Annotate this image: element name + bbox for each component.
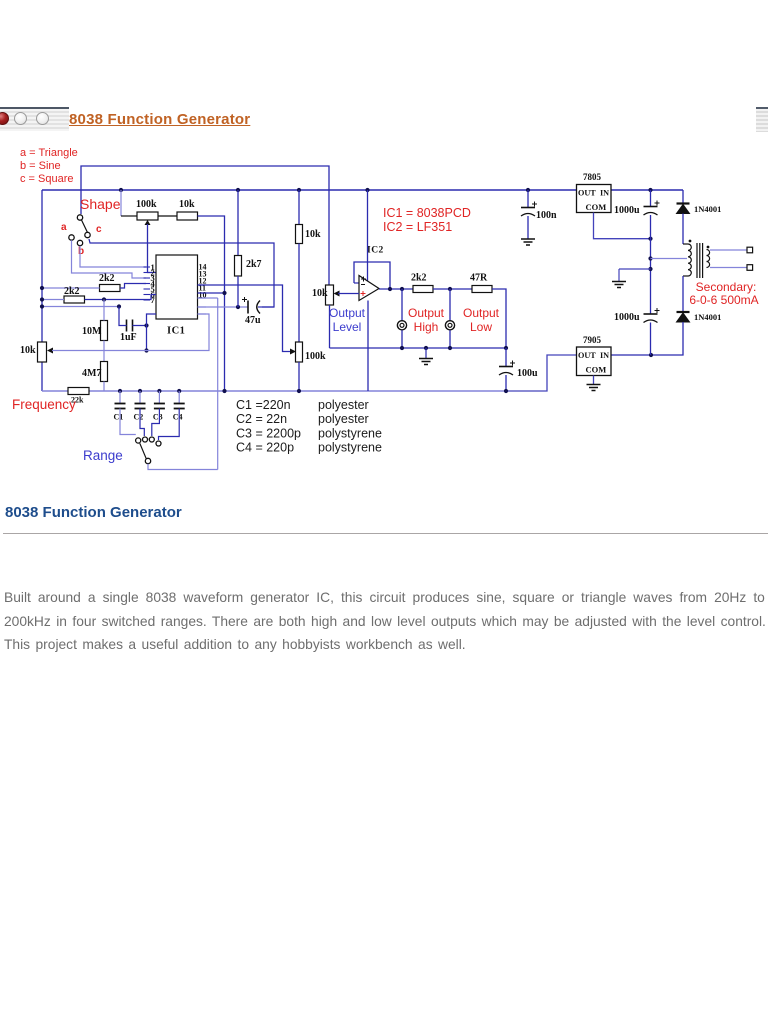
diode D2 1N4001 xyxy=(677,312,690,322)
node common x402 xyxy=(400,346,404,350)
switch SW1 contact b xyxy=(77,240,82,245)
svg-text:Low: Low xyxy=(470,320,492,334)
regulator 7805 body xyxy=(577,185,612,213)
svg-text:100k: 100k xyxy=(305,351,326,362)
wire level pot to output common xyxy=(329,305,331,348)
connector output high xyxy=(397,321,406,330)
wire 2k2 upper to pin4 xyxy=(120,284,146,289)
node feedback junction xyxy=(388,287,392,291)
svg-text:Output: Output xyxy=(329,306,366,320)
node common ground tap xyxy=(424,346,428,350)
svg-text:a: a xyxy=(61,222,67,233)
wire output high to common xyxy=(401,330,403,348)
wire pin12 to 100k pot wiper xyxy=(198,285,294,352)
node output high branch xyxy=(400,287,404,291)
wire left rail lower xyxy=(41,362,43,391)
node left rail y306 xyxy=(40,304,44,308)
svg-text:C1: C1 xyxy=(114,413,124,422)
svg-text:polyester: polyester xyxy=(318,412,369,426)
svg-text:C2 = 22n: C2 = 22n xyxy=(236,412,287,426)
potentiometer 10k level xyxy=(326,285,334,305)
resistor 10k top xyxy=(177,212,198,220)
wire junction down to wiper line xyxy=(146,326,148,351)
wire pin10 vertical xyxy=(217,298,219,470)
op-amp IC1 8038 body xyxy=(156,255,198,319)
diode D1 1N4001 xyxy=(677,204,690,214)
svg-text:polystyrene: polystyrene xyxy=(318,441,382,455)
svg-text:IC2 = LF351: IC2 = LF351 xyxy=(383,220,452,234)
wire C4 to range contact xyxy=(159,409,180,441)
window control button 2 xyxy=(14,112,27,125)
svg-text:Output: Output xyxy=(463,306,500,320)
wire rail to op-amp + xyxy=(367,190,369,281)
svg-text:10k: 10k xyxy=(305,229,321,240)
svg-text:C1 =220n: C1 =220n xyxy=(236,398,291,412)
svg-text:2k2: 2k2 xyxy=(99,273,115,284)
wire rail to 2k2 lower xyxy=(42,299,64,301)
wire 1uF left lead xyxy=(119,307,127,326)
node 0V x650 y258 xyxy=(648,256,652,260)
svg-text:2k7: 2k7 xyxy=(246,259,262,270)
svg-text:COM: COM xyxy=(586,365,607,375)
transformer T1 xyxy=(683,240,710,278)
svg-text:polyester: polyester xyxy=(318,398,369,412)
svg-text:High: High xyxy=(414,320,439,334)
svg-text:1N4001: 1N4001 xyxy=(694,312,721,322)
wire C1 to range contact xyxy=(120,409,136,435)
svg-text:C4 = 220p: C4 = 220p xyxy=(236,441,294,455)
wire rail to 10k vert xyxy=(298,190,300,225)
capacitor C4 xyxy=(177,389,181,393)
svg-text:10M: 10M xyxy=(82,326,102,337)
wire 10M to 4M7 xyxy=(103,341,105,362)
wire SW2 pole to pin10 xyxy=(148,464,218,470)
capacitor 100u xyxy=(499,361,515,376)
svg-text:1uF: 1uF xyxy=(120,332,137,343)
capacitor C2 xyxy=(138,389,142,393)
node 0V x650 y238 xyxy=(648,237,652,241)
svg-text:C4: C4 xyxy=(173,413,183,422)
svg-text:47u: 47u xyxy=(245,315,261,326)
svg-text:Frequency: Frequency xyxy=(12,397,76,412)
wire rail to diode D1 xyxy=(682,190,684,204)
wire C2 to range contact xyxy=(140,409,144,437)
svg-text:b = Sine: b = Sine xyxy=(20,160,61,172)
wire 2k2 line to 10M xyxy=(103,300,105,321)
node top rail x650 xyxy=(648,188,652,192)
wire secondary terminal lower xyxy=(710,267,747,269)
ground 100n xyxy=(521,239,535,245)
wire pin11 node to bottom rail xyxy=(224,293,226,391)
wire 0V column xyxy=(650,215,652,314)
node 0V x650 y269 xyxy=(648,267,652,271)
node 1000u lower junction xyxy=(649,353,653,357)
wire 100u to rail xyxy=(505,375,507,391)
wire top +V rail xyxy=(42,189,683,191)
wire bottom 0V rail xyxy=(42,390,506,392)
wire ground branch down xyxy=(618,269,620,281)
svg-text:10k: 10k xyxy=(312,288,328,299)
switch SW1 contact a xyxy=(69,235,74,240)
svg-text:COM: COM xyxy=(586,202,607,212)
svg-text:10k: 10k xyxy=(179,199,195,210)
window control button 3 xyxy=(36,112,49,125)
wire 2k7 to pin9 line xyxy=(237,276,239,307)
wire junction to pin7 area xyxy=(147,314,157,326)
wire contact a to pin3 xyxy=(72,240,147,278)
wire rail to 1000u upper xyxy=(650,190,652,206)
connector output low xyxy=(445,321,454,330)
wire feedback to inverting input xyxy=(354,282,359,284)
wire 47R to common xyxy=(492,289,506,348)
wire C3 to range contact xyxy=(152,409,160,437)
wire transformer to diode D2 xyxy=(682,276,684,313)
svg-text:c: c xyxy=(96,224,102,235)
10k level pot wiper arrow xyxy=(334,291,340,297)
wire 47u right lead xyxy=(258,306,274,308)
switch SW2 lever xyxy=(140,443,147,459)
node common x450 xyxy=(448,346,452,350)
node 1uF branch xyxy=(117,304,121,308)
wire rail to 100n xyxy=(527,190,529,207)
capacitor 47u xyxy=(242,297,260,314)
node top rail x299 xyxy=(297,188,301,192)
wire 2k2 to 47R xyxy=(433,288,472,290)
wire secondary terminal upper xyxy=(710,249,747,251)
switch SW2 pole xyxy=(145,458,150,463)
svg-text:IN: IN xyxy=(600,351,609,360)
wire output common rail xyxy=(330,347,507,349)
wire D2 to 7905 IN xyxy=(612,322,684,355)
svg-text:b: b xyxy=(78,246,84,257)
svg-text:1N4001: 1N4001 xyxy=(694,204,721,214)
svg-text:Secondary:: Secondary: xyxy=(696,280,757,294)
wire left rail upper xyxy=(41,190,43,342)
100k pot wiper arrow xyxy=(290,349,296,355)
svg-text:Output: Output xyxy=(408,306,445,320)
capacitor 1000u lower xyxy=(644,308,660,323)
wire 4M7 to rail xyxy=(103,382,105,392)
wire pin11 stub xyxy=(198,292,225,294)
wire pin9 to 47u xyxy=(198,306,249,308)
switch SW2 contact 2 xyxy=(143,437,148,442)
svg-text:2k2: 2k2 xyxy=(411,273,427,284)
svg-text:IN: IN xyxy=(600,189,609,198)
node top rail x238 xyxy=(236,188,240,192)
potentiometer 100k output xyxy=(296,342,303,362)
node output low branch xyxy=(448,287,452,291)
wire centre tap xyxy=(651,258,688,260)
svg-text:Range: Range xyxy=(83,448,123,463)
switch SW2 contact 1 xyxy=(136,438,141,443)
node top rail x367 xyxy=(365,188,369,192)
svg-text:2k2: 2k2 xyxy=(64,286,80,297)
op-amp IC2 triangle xyxy=(359,276,379,301)
svg-text:100u: 100u xyxy=(517,368,538,379)
svg-text:IC1 = 8038PCD: IC1 = 8038PCD xyxy=(383,206,471,220)
resistor 10k vertical xyxy=(296,225,303,244)
wire contact c to 47u xyxy=(89,239,274,307)
capacitor C3 xyxy=(157,389,161,393)
capacitor 1000u upper xyxy=(644,201,660,216)
svg-text:C3: C3 xyxy=(153,413,163,422)
terminal upper xyxy=(747,247,753,253)
potentiometer 10k frequency xyxy=(38,342,47,362)
ground 7905 xyxy=(587,385,601,391)
ground output common xyxy=(419,359,433,365)
potentiometer 100k top xyxy=(137,212,158,220)
svg-text:10k: 10k xyxy=(20,345,36,356)
svg-text:IC1: IC1 xyxy=(167,326,185,337)
node wiper line junction xyxy=(144,348,148,352)
node top rail junction x121 xyxy=(119,188,123,192)
wire D1 to transformer xyxy=(682,214,684,245)
wire 10k to pin11 node xyxy=(198,216,225,293)
wire 0V to ground branch xyxy=(619,268,651,270)
terminal lower xyxy=(747,265,753,271)
node 2k7 bottom junction xyxy=(236,305,240,309)
svg-text:6-0-6 500mA: 6-0-6 500mA xyxy=(689,293,758,307)
resistor 2k2 output xyxy=(413,286,433,293)
ground 0V xyxy=(612,282,626,288)
node common x506 xyxy=(504,346,508,350)
svg-text:4M7: 4M7 xyxy=(82,368,101,379)
svg-text:C2: C2 xyxy=(134,413,144,422)
svg-text:100k: 100k xyxy=(136,199,157,210)
wire level wiper to op-amp +in xyxy=(338,293,359,295)
page title link xyxy=(69,111,250,128)
resistor 2k2 upper xyxy=(100,285,121,292)
svg-text:OUT: OUT xyxy=(578,189,596,198)
svg-text:Level: Level xyxy=(333,320,362,334)
svg-text:OUT: OUT xyxy=(578,351,596,360)
regulator 7905 body xyxy=(577,347,612,376)
wire 7905 COM to ground xyxy=(593,376,595,385)
capacitor C1 xyxy=(118,389,122,393)
svg-text:7905: 7905 xyxy=(583,335,602,345)
wire rail to 100k pot xyxy=(120,190,122,216)
browser title bar fragment xyxy=(0,107,69,131)
wire 100k left lead xyxy=(121,215,137,217)
resistor 2k7 xyxy=(235,256,242,277)
wire rail to 2k7 xyxy=(237,190,239,256)
svg-text:a = Triangle: a = Triangle xyxy=(20,147,78,159)
node 1uF right junction xyxy=(144,323,148,327)
wire 1uF right lead xyxy=(133,325,147,327)
node bottom rail x224 xyxy=(222,389,226,393)
switch SW2 contact 4 xyxy=(156,441,161,446)
resistor 22k xyxy=(68,388,89,395)
wire 100n to ground xyxy=(527,216,529,239)
node top rail x528 xyxy=(526,188,530,192)
switch SW1 pole contact xyxy=(77,215,82,220)
wire bottom rail to 7905 OUT xyxy=(506,355,576,391)
wire 1000u lower to IN line xyxy=(650,323,652,356)
wire common to 100u xyxy=(505,348,507,366)
wire 2k2 lower to pin5 xyxy=(85,295,157,300)
section heading xyxy=(5,504,182,521)
svg-text:7805: 7805 xyxy=(583,172,602,182)
wire wiper line to pin8 xyxy=(147,314,210,351)
wire 100k wiper to pin2 xyxy=(148,224,157,273)
capacitor 1uF xyxy=(127,320,133,332)
op-amp input marks xyxy=(361,277,366,282)
body paragraph xyxy=(4,586,768,657)
svg-text:C3 = 2200p: C3 = 2200p xyxy=(236,426,301,440)
horizontal rule xyxy=(3,533,768,534)
IC1 left pins 1-7 xyxy=(144,266,151,268)
wire op-amp output xyxy=(379,288,413,290)
wire 100k pot to rail xyxy=(298,362,300,391)
wire 10k to 100k pot xyxy=(298,244,300,343)
wire pin10 stub xyxy=(198,297,218,299)
svg-text:1000u: 1000u xyxy=(614,205,640,216)
wire between 100k and 10k xyxy=(158,215,177,217)
switch SW1 contact c xyxy=(85,232,90,237)
wire op-amp V- to rail xyxy=(367,301,369,392)
svg-text:100n: 100n xyxy=(536,210,557,221)
100k pot wiper arrow xyxy=(145,220,151,225)
resistor 47R xyxy=(472,286,492,293)
svg-text:Shape: Shape xyxy=(80,196,121,212)
wire to output low connector xyxy=(449,289,451,321)
svg-text:47R: 47R xyxy=(470,273,488,284)
wire 10k wiper to pins 7-8 xyxy=(52,350,147,352)
resistor 4M7 xyxy=(101,362,108,382)
svg-text:IC2: IC2 xyxy=(367,246,384,256)
capacitor 100n xyxy=(521,202,537,217)
wire IC2 feedback loop xyxy=(354,262,390,289)
node 10M top xyxy=(102,297,106,301)
node bottom rail x299 xyxy=(297,389,301,393)
wire to output high connector xyxy=(401,289,403,321)
window control red button xyxy=(0,112,9,125)
svg-text:polystyrene: polystyrene xyxy=(318,426,382,440)
node left rail y288 xyxy=(40,286,44,290)
resistor 2k2 lower xyxy=(64,296,85,303)
switch SW1 lever xyxy=(82,220,88,233)
switch SW2 contact 3 xyxy=(149,437,154,442)
svg-text:1000u: 1000u xyxy=(614,312,640,323)
wire 7805 COM to 0V xyxy=(594,213,651,239)
right window fragment xyxy=(756,107,768,132)
wire rail to 2k2 upper xyxy=(42,287,100,289)
node left rail y299 xyxy=(40,297,44,301)
wire common to ground xyxy=(425,348,427,358)
wire rail to 1uF xyxy=(42,306,119,308)
wire contact b to pin1 xyxy=(80,246,146,267)
svg-text:c = Square: c = Square xyxy=(20,173,74,185)
wire output low to common xyxy=(449,330,451,348)
wire switch pole to level pot xyxy=(81,166,329,285)
node pin11 junction xyxy=(222,291,226,295)
resistor 10M xyxy=(101,321,108,341)
10k pot wiper arrow xyxy=(47,348,53,354)
node bottom rail x506 xyxy=(504,389,508,393)
